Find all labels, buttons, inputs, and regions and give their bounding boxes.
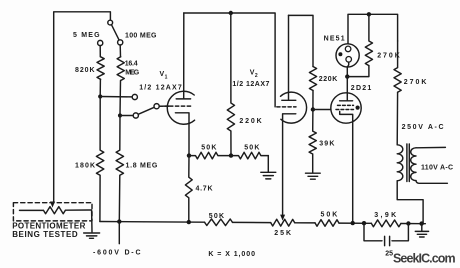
switch S1 blade to 100 MEG side bbox=[111, 25, 119, 40]
wire plate rail V1 to V2 grid bbox=[184, 13, 275, 107]
wire bottom bus -600V supply bbox=[100, 222, 425, 224]
transformer T1 secondary winding bbox=[411, 148, 416, 181]
transformer T1 core bbox=[407, 144, 409, 182]
tube 2D21 cathode bbox=[340, 111, 353, 223]
tube V2 envelope (1/2 12AX7) bbox=[281, 92, 307, 123]
junction dot rail at 220K bbox=[229, 11, 233, 15]
svg-text:5 MEG: 5 MEG bbox=[73, 32, 100, 39]
svg-text:50K: 50K bbox=[321, 211, 338, 218]
switch S2 blade bbox=[138, 107, 154, 114]
neon lamp NE51 envelope bbox=[336, 44, 359, 67]
junction dot V1 cathode / 50K / 4.7K bbox=[187, 153, 191, 157]
wire 820K to node A bbox=[99, 79, 101, 96]
NE51 gas dot bbox=[338, 52, 342, 56]
junction dot bus right end bbox=[419, 221, 423, 225]
resistor 270K second bbox=[394, 41, 401, 92]
resistor 270K first bbox=[365, 14, 372, 65]
tube V1 grid lead solid part bbox=[159, 105, 169, 107]
wire rail 3 top right bbox=[348, 14, 398, 46]
svg-text:110V A-C: 110V A-C bbox=[421, 164, 453, 171]
resistor 1.8 MEG bbox=[116, 116, 123, 222]
resistor 820K bbox=[97, 57, 104, 80]
resistor 16.4 MEG bbox=[117, 57, 124, 81]
tube V1 plate and lead from top rail bbox=[176, 13, 190, 99]
node A junction dot (820K / 180K / grid contact) bbox=[98, 94, 102, 98]
tube 2D21 grid dashes row1 bbox=[338, 104, 354, 106]
resistor 50K fourth bbox=[315, 220, 339, 227]
svg-text:4.7K: 4.7K bbox=[196, 185, 213, 192]
junction dot bus at 2D21 cathode bbox=[351, 221, 355, 225]
svg-text:1/2 12AX7: 1/2 12AX7 bbox=[139, 85, 182, 92]
resistor 220K (V1 plate to cathode network) bbox=[227, 13, 234, 156]
resistor 50K first bbox=[189, 152, 231, 159]
node C junction dot (220K/39K/2D21 grid) bbox=[311, 107, 315, 111]
svg-text:220K: 220K bbox=[239, 118, 261, 125]
tube V1 cathode and lead down bbox=[175, 113, 189, 156]
wire top-left rail from pot wiper line to range switch bbox=[54, 12, 111, 203]
svg-text:50K: 50K bbox=[209, 213, 224, 220]
wire pot right terminal to ground bbox=[91, 210, 93, 232]
wire node B to lower grid contact bbox=[120, 115, 133, 117]
switch S2 upper contact bbox=[132, 94, 137, 99]
potentiometer under test element bbox=[20, 207, 92, 214]
junction dot bus at capacitor right bbox=[406, 221, 410, 225]
resistor 50K second bbox=[231, 152, 268, 159]
NE51 upper electrode bbox=[345, 46, 351, 52]
ground below 50K second bbox=[261, 172, 276, 179]
capacitor 25 right lead bbox=[392, 224, 408, 241]
node D junction dot (NE51/270K/2D21 plate) bbox=[345, 74, 349, 78]
potentiometer 25K bbox=[271, 219, 295, 226]
wire node D to 270K first bottom bbox=[347, 66, 369, 77]
wire 50K second to ground bbox=[267, 156, 269, 172]
tube V1 grid (dashed) and lead to switch bbox=[159, 105, 191, 107]
wire secondary top lead 110V A-C bbox=[416, 146, 445, 148]
svg-text:25K: 25K bbox=[274, 230, 291, 237]
wire bus right end to ground bbox=[421, 224, 423, 231]
svg-text:270K: 270K bbox=[404, 79, 427, 86]
svg-text:2D21: 2D21 bbox=[351, 85, 372, 92]
svg-text:39K: 39K bbox=[319, 141, 334, 148]
wire 270K second to transformer primary bbox=[396, 92, 398, 145]
svg-text:POTENTIOMETER: POTENTIOMETER bbox=[12, 222, 85, 231]
tube V1 envelope (1/2 12AX7) bbox=[167, 91, 194, 124]
junction dot bus -600V stub bbox=[117, 219, 121, 223]
wire -600V stub bbox=[118, 222, 120, 244]
tube 2D21 gas dot bbox=[356, 106, 360, 110]
wire rail 2 V2 plate to 220K bbox=[289, 15, 314, 66]
transformer T1 primary winding bbox=[397, 145, 403, 181]
junction dot 50K/50K/220K bbox=[229, 153, 233, 157]
svg-text:180K: 180K bbox=[75, 163, 95, 170]
wire primary bottom to bus bbox=[397, 181, 423, 224]
svg-text:K = X 1,000: K = X 1,000 bbox=[208, 251, 255, 258]
resistor 3.9K bbox=[371, 220, 401, 227]
wire 220K right to node C bbox=[312, 91, 314, 110]
svg-text:3,9K: 3,9K bbox=[374, 212, 396, 219]
NE51 lower electrode bbox=[346, 57, 352, 63]
switch S1 common contact bbox=[108, 20, 113, 25]
svg-text:270K: 270K bbox=[377, 52, 400, 59]
switch S2 common contact at V1 grid bbox=[154, 104, 159, 109]
potentiometer wiper arrowhead bbox=[50, 202, 55, 208]
svg-text:250V A-C: 250V A-C bbox=[402, 124, 444, 131]
svg-text:25: 25 bbox=[385, 251, 393, 258]
tube 2D21 plate and lead from node D bbox=[340, 77, 353, 101]
svg-text:SeekIC.com: SeekIC.com bbox=[393, 252, 456, 266]
svg-text:1/2 12AX7: 1/2 12AX7 bbox=[232, 81, 269, 88]
svg-text:MEG: MEG bbox=[125, 69, 140, 76]
capacitor 25 plates bbox=[385, 236, 390, 245]
svg-text:1: 1 bbox=[165, 74, 168, 80]
wire node A to upper grid contact bbox=[100, 96, 132, 98]
svg-text:-600V D-C: -600V D-C bbox=[93, 250, 141, 257]
resistor 180K bbox=[96, 97, 103, 222]
wire secondary bottom lead 110V A-C bbox=[416, 181, 447, 184]
resistor 4.7K bbox=[185, 156, 192, 222]
svg-text:BEING TESTED: BEING TESTED bbox=[12, 230, 78, 239]
junction dot bus at 4.7K bbox=[187, 220, 191, 224]
resistor 39K bbox=[309, 110, 316, 173]
ground at potentiometer bbox=[84, 233, 100, 238]
tube 2D21 grid dashes row2 bbox=[336, 109, 354, 111]
tube V2 grid (dashed) bbox=[277, 106, 296, 108]
svg-text:50K: 50K bbox=[201, 144, 216, 151]
ground at bus right end bbox=[415, 231, 428, 237]
svg-text:2: 2 bbox=[255, 73, 258, 79]
svg-text:16.4: 16.4 bbox=[125, 61, 138, 68]
wire NE51 to node D bbox=[347, 62, 348, 77]
wire node C to 2D21 grid bbox=[313, 109, 334, 111]
switch S1 contact right (100 MEG range) bbox=[118, 40, 123, 45]
switch S1 contact left (5 MEG range) bbox=[98, 40, 103, 45]
svg-text:220K: 220K bbox=[319, 76, 338, 83]
svg-text:100 MEG: 100 MEG bbox=[125, 32, 157, 39]
wire 100 MEG contact to resistor 16.4 MEG bbox=[119, 45, 121, 57]
wire 16.4 MEG to node B bbox=[119, 81, 122, 116]
node B junction dot (16.4 MEG / 1.8 MEG / grid contact) bbox=[118, 113, 122, 117]
junction dot rail 3 at 270K first bbox=[367, 12, 371, 16]
ground below 39K bbox=[306, 173, 321, 179]
svg-text:50K: 50K bbox=[244, 144, 259, 151]
tube V2 plate and lead to top rail 2 bbox=[282, 15, 296, 100]
capacitor 25 left lead bbox=[364, 223, 382, 241]
tube 2D21 envelope bbox=[331, 93, 361, 123]
wire 5 MEG contact to resistor 820K bbox=[99, 46, 101, 57]
svg-text:1.8 MEG: 1.8 MEG bbox=[126, 163, 158, 170]
junction dot bus at capacitor left bbox=[362, 221, 366, 225]
svg-text:820K: 820K bbox=[75, 67, 95, 74]
resistor 50K third bbox=[205, 219, 233, 226]
switch S2 lower contact bbox=[133, 113, 138, 118]
wiper arrowhead onto 25K bbox=[280, 215, 285, 221]
resistor 220K right bbox=[309, 67, 316, 91]
dashed box potentiometer being tested bbox=[13, 203, 92, 221]
tube V2 cathode and lead down to 25K wiper bbox=[283, 114, 296, 215]
svg-text:NE51: NE51 bbox=[324, 36, 345, 43]
